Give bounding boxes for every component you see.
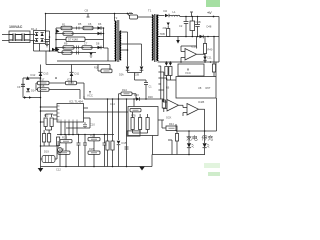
LED1 — [187, 143, 191, 147]
svg-text:D13: D13 — [44, 72, 49, 76]
wire T1 sec taps ticks — [158, 66, 166, 90]
svg-text:R21: R21 — [59, 147, 64, 151]
T2 core — [117, 20, 119, 62]
svg-text:R5: R5 — [78, 22, 82, 26]
diode D6 — [98, 32, 102, 35]
wire indicator left leg — [168, 140, 172, 155]
wire snubber drop — [128, 14, 130, 17]
snubber box — [130, 15, 138, 19]
capacitor C16 — [83, 135, 87, 167]
wire bridge negative drop — [39, 44, 41, 52]
ground mid rail — [177, 37, 179, 41]
op-amp IC2B-1 — [167, 100, 179, 112]
wire VCC rail stub up — [83, 96, 85, 99]
svg-text:R2A: R2A — [122, 88, 127, 92]
svg-text:D2A: D2A — [119, 74, 124, 77]
IC1 bottom pins — [61, 122, 77, 135]
svg-text:R16: R16 — [94, 67, 99, 70]
junction dots — [45, 13, 47, 15]
wire grid v3 — [65, 154, 67, 166]
wire rectifier join — [128, 70, 142, 72]
wire cap node drop — [45, 51, 47, 65]
wire IC2B-1 inputs — [163, 99, 167, 109]
LED2 bar — [203, 147, 207, 149]
svg-text:D12: D12 — [31, 73, 36, 77]
diode D3 on mid rail — [200, 35, 204, 39]
resistor R20 vertical — [57, 137, 60, 146]
capacitor C7B — [77, 51, 79, 55]
svg-text:D2B: D2B — [135, 74, 140, 77]
resistor R4B vertical — [169, 62, 171, 64]
wire sec bus v2 — [163, 72, 165, 102]
wire network out — [158, 119, 164, 121]
diode D14 bar — [26, 91, 30, 93]
svg-text:D16: D16 — [134, 93, 139, 97]
resistor R1A — [101, 69, 112, 73]
IC1 left inner ticks — [57, 106, 60, 120]
svg-text:R9: R9 — [64, 42, 68, 46]
diode D4 — [41, 39, 44, 42]
T2 secondary winding — [120, 31, 121, 60]
transistor Q1 — [56, 29, 60, 33]
wire Q3 stub — [58, 141, 60, 167]
wire R2A link — [119, 94, 137, 99]
wire primary bottom rail — [57, 60, 114, 62]
wire R37 link — [163, 108, 165, 112]
wire bus net low — [41, 121, 45, 123]
wire AC line — [2, 34, 9, 36]
resistor R35 vertical — [175, 134, 178, 142]
svg-text:VCC: VCC — [185, 71, 191, 75]
svg-text:C4B: C4B — [196, 20, 201, 24]
resistor R21 — [58, 151, 70, 154]
svg-text:R40: R40 — [208, 48, 213, 52]
bridge rectifier D1-4 — [34, 31, 46, 44]
svg-text:R1: R1 — [62, 22, 66, 26]
wire +V right drop — [218, 17, 220, 63]
diode D18 — [29, 96, 32, 99]
diode D16 — [136, 97, 140, 100]
diode D4 vertical — [203, 54, 206, 63]
green watermark bottom-right — [208, 172, 220, 176]
resistor R32 vertical — [131, 118, 134, 130]
diode D15 — [117, 141, 121, 145]
diode D5 bar — [100, 26, 102, 29]
svg-text:D11: D11 — [75, 72, 80, 76]
wire cap row under IC — [66, 127, 90, 129]
resistor R2A — [121, 92, 132, 95]
wire IC2B-2 inputs — [183, 108, 187, 117]
wire rail to D5A — [50, 49, 53, 51]
wire bus pin stub 1 — [41, 106, 54, 108]
ground arrow left bus — [38, 168, 44, 172]
wire T1 sec mid tap — [158, 36, 160, 38]
diode D9 — [89, 53, 92, 56]
wire bottom rail row y134.5 — [57, 134, 114, 136]
diode D9 drop — [90, 56, 93, 57]
LED2 — [203, 143, 207, 147]
IC1 TL494 box — [57, 104, 84, 123]
wire sec riser x141 — [141, 44, 143, 66]
capacitor C7 — [77, 46, 79, 50]
resistor R10 — [82, 46, 92, 49]
capacitor C8 stub — [87, 14, 90, 18]
wire row A2 — [56, 33, 104, 35]
capacitor CX2 — [18, 34, 30, 42]
resistor R2L vertical — [167, 29, 170, 37]
diode D11 bar — [70, 71, 74, 73]
svg-text:C12: C12 — [56, 168, 61, 172]
relay box U8 — [176, 77, 216, 99]
capacitor C18 — [125, 147, 129, 149]
wire y97 link — [23, 97, 41, 99]
resistor R34 vertical — [146, 118, 149, 130]
svg-text:L1: L1 — [173, 10, 177, 14]
resistor R18 — [38, 88, 50, 91]
wire R2L stub — [167, 26, 169, 29]
diode bars bridge — [35, 33, 44, 39]
wire R1A left — [98, 65, 101, 72]
label D10 — [0, 0, 1, 1]
resistor R11 — [62, 51, 72, 54]
resistor R19 — [66, 81, 77, 84]
wire IC2A output — [197, 37, 206, 63]
wire bridge left drop — [33, 41, 35, 52]
transformer T1 — [152, 14, 159, 62]
green watermark top-right — [206, 0, 220, 7]
svg-text:IC2A: IC2A — [191, 44, 197, 48]
diode D2 bar — [168, 14, 170, 17]
wire left riser x56 — [55, 28, 57, 51]
capacitor C9 — [21, 84, 25, 86]
resistor R9 — [63, 46, 74, 49]
resistor R33 vertical — [139, 118, 142, 130]
resistor R4A vertical — [165, 62, 167, 64]
wire right edge bus — [216, 98, 218, 131]
diode D8 — [98, 46, 102, 49]
resonator box — [42, 156, 55, 163]
diode D2A — [126, 67, 130, 71]
wire negative rail — [34, 50, 59, 52]
wire LED drops — [189, 131, 205, 143]
svg-text:R30: R30 — [148, 95, 153, 99]
resistor R6T vertical — [212, 64, 215, 72]
svg-text:SCK: SCK — [166, 116, 172, 120]
svg-text:T1: T1 — [148, 9, 152, 13]
small comp box — [127, 131, 140, 136]
svg-text:C11: C11 — [207, 56, 212, 60]
capacitor C4 — [195, 17, 200, 37]
resistor R24 vertical — [43, 134, 46, 143]
diode D2B bar — [140, 69, 144, 71]
svg-text:VCC: VCC — [87, 94, 93, 98]
svg-text:R28: R28 — [89, 147, 94, 151]
ground arrow mid — [176, 40, 180, 44]
wire riser x80 — [79, 90, 81, 100]
diode D2 — [41, 33, 44, 36]
diode D17 — [24, 96, 27, 99]
resistor R31 vertical — [111, 141, 114, 150]
diode D5 — [98, 26, 102, 29]
wire top HV rail — [46, 13, 134, 15]
ground bridge filter — [45, 45, 49, 48]
op-amp IC2A — [185, 49, 197, 61]
wire bottom rail y166.5 — [41, 166, 153, 168]
wire riser x58 — [57, 51, 59, 53]
capacitor C2 — [184, 22, 189, 37]
svg-text:D2: D2 — [164, 9, 168, 13]
diode D3 bar — [202, 35, 204, 39]
wire riser x71 — [71, 65, 73, 73]
wire rail drop left — [175, 124, 177, 131]
wire x214 drop — [213, 37, 215, 63]
svg-text:D15: D15 — [122, 141, 127, 145]
resistor R27 vertical — [48, 134, 51, 143]
resistor R22 vertical — [44, 118, 47, 127]
fuse F2 — [190, 12, 193, 17]
wire riser x36 — [35, 83, 37, 90]
wire channel left drop — [22, 78, 24, 98]
diode D11 — [70, 73, 74, 76]
LED1 arrows — [192, 144, 194, 147]
wire IC2A in2 drop — [180, 58, 182, 63]
diode D13 — [39, 73, 43, 76]
transistor Q2 — [56, 48, 60, 52]
wire LED bottoms — [189, 148, 205, 155]
wire SCK link — [162, 120, 166, 128]
wire bus pin stub 2 — [41, 110, 54, 112]
svg-text:C2: C2 — [179, 24, 183, 28]
diode D1 — [35, 33, 38, 36]
small box SCK — [166, 126, 177, 130]
resistor R29 vertical — [106, 141, 109, 150]
resistor R28 — [88, 151, 100, 154]
diode D3 — [35, 39, 38, 42]
wire sec bus v3 — [166, 78, 168, 108]
wire resonator stub — [41, 146, 58, 159]
capacitor Ct — [144, 80, 148, 99]
wire box right top — [215, 62, 217, 77]
resistor R2 — [63, 32, 73, 35]
resistor R7B — [130, 109, 141, 112]
diode D15 bar — [117, 144, 121, 146]
wire T2 sec tap3 — [121, 43, 141, 45]
wire T2 sec tap2 — [121, 49, 127, 51]
wire step drop — [152, 136, 154, 155]
capacitor CX1 — [9, 34, 18, 42]
ground symbol left bus — [40, 167, 42, 169]
svg-text:D48: D48 — [207, 25, 212, 29]
svg-text:C10: C10 — [90, 123, 95, 127]
wire mid rail y36.5 — [158, 36, 219, 38]
svg-text:R25: R25 — [62, 136, 67, 140]
resistor R23 vertical — [50, 118, 53, 127]
IC1 inner pin ticks — [61, 120, 77, 123]
diode D2 — [165, 14, 169, 17]
wire bridge positive riser — [45, 14, 47, 34]
wire cap drop C2 — [185, 17, 187, 22]
wire R35 legs — [176, 131, 178, 155]
wire R31 drop — [112, 150, 114, 167]
capacitor C3 — [190, 21, 195, 31]
IC1 left pins — [53, 107, 57, 119]
wire node riser x49 — [46, 31, 50, 51]
svg-text:R44: R44 — [169, 122, 174, 126]
wire IC2B-2 output — [199, 109, 205, 131]
svg-text:U8: U8 — [198, 86, 202, 90]
wire IC2A inputs — [181, 46, 197, 58]
wire grid v1 — [65, 135, 67, 152]
wire net risers x112-126 — [108, 99, 127, 167]
wire network feed — [133, 99, 135, 107]
diode D4 — [203, 57, 206, 61]
wire row y83 — [36, 82, 84, 84]
transistor Q3 — [58, 148, 63, 153]
diode D6 bar — [100, 32, 102, 35]
T1 primary winding — [152, 15, 153, 60]
diode D2A bar — [126, 69, 130, 71]
network box — [128, 107, 158, 136]
wire +V rail — [180, 16, 219, 18]
transformer T2 — [115, 20, 122, 62]
capacitor C5A — [77, 27, 80, 30]
svg-text:IC3: IC3 — [67, 78, 72, 82]
wire C3 drop — [191, 17, 193, 37]
resistor R3 vertical — [204, 37, 206, 44]
wire row y146 — [41, 145, 58, 147]
svg-text:IC1 TL494: IC1 TL494 — [69, 99, 83, 103]
wire snubber to T1 — [138, 16, 152, 18]
IC1 right pins — [84, 108, 129, 128]
capacitor C5 — [45, 40, 50, 45]
capacitor C15 — [77, 135, 81, 167]
svg-text:D14: D14 — [31, 89, 36, 93]
svg-text:R6T: R6T — [206, 86, 211, 90]
wire res tops — [44, 130, 49, 146]
wire row A — [56, 27, 104, 29]
T1 core — [154, 14, 156, 62]
resistor R17 — [38, 81, 50, 84]
wire channel row y78 — [23, 77, 41, 79]
label smudges in resistor boxes — [40, 28, 175, 153]
svg-text:20k: 20k — [163, 26, 168, 30]
wire left bus x40.5 — [40, 65, 42, 167]
wire IC2B-1 output — [179, 105, 184, 107]
diode D2B — [140, 67, 144, 71]
LED1 bar — [187, 147, 191, 149]
svg-text:TDB: TDB — [160, 32, 165, 36]
wire riser x110 — [109, 65, 111, 71]
svg-text:100VAC: 100VAC — [9, 25, 23, 29]
wire T1 primary feed — [138, 16, 142, 18]
wire T1 sec top tap — [158, 15, 164, 17]
wire indicator rail y131 — [176, 130, 217, 132]
wire D15 drop — [118, 145, 120, 167]
green watermark bottom-right faint — [204, 163, 220, 168]
svg-text:C9: C9 — [17, 85, 21, 89]
T1 secondary winding — [157, 15, 158, 61]
svg-text:C6: C6 — [88, 22, 92, 26]
wire y62 rail — [158, 61, 219, 63]
capacitor C17 — [103, 135, 107, 167]
EMI filter box — [9, 31, 30, 43]
wire sec bus v1 — [160, 66, 162, 99]
wire filter to bridge bottom — [30, 40, 35, 42]
op-amp IC2B-2 — [187, 104, 199, 116]
T2 primary winding — [115, 21, 116, 61]
diode D12 — [26, 76, 30, 80]
wire step riser — [151, 155, 153, 167]
LED2 arrows — [207, 144, 209, 147]
wire AC neutral — [2, 40, 9, 42]
wire VCC rail y99 — [84, 98, 164, 100]
wire row B2 — [58, 52, 96, 54]
wire row B to xfmr — [104, 48, 109, 61]
wire row A3 — [56, 39, 104, 41]
wire riser x84 — [83, 83, 85, 99]
resistor R5 — [83, 26, 93, 29]
diode D13 bar — [39, 71, 43, 73]
svg-text:C8: C8 — [85, 9, 89, 13]
diode D5A on rail — [52, 48, 55, 51]
diode D5A bar — [54, 48, 56, 51]
diode D8 bar — [100, 46, 102, 49]
svg-text:D19: D19 — [44, 150, 49, 154]
snubber box D7 — [66, 37, 85, 42]
wire grid v2 — [93, 135, 95, 167]
inductor L1 — [172, 15, 180, 16]
svg-text:R18: R18 — [40, 84, 45, 88]
svg-text:C7: C7 — [84, 42, 88, 46]
wire T2 primary top — [114, 14, 116, 22]
resonator hatch — [46, 156, 52, 163]
wire lower rail y64.5 — [46, 64, 110, 66]
svg-text:D8: D8 — [96, 42, 100, 46]
wire VCC tick — [187, 69, 189, 71]
resistor R37 vertical — [162, 100, 165, 108]
svg-text:D1-4: D1-4 — [31, 27, 38, 31]
capacitor C13 — [83, 122, 87, 128]
wire R4 drops — [166, 76, 176, 81]
wire row B — [56, 47, 104, 49]
diode D14 — [26, 88, 30, 91]
wire right riser x103 — [103, 28, 105, 48]
diode D4A blob — [165, 63, 168, 66]
wire step rail — [152, 154, 205, 156]
diode D16 bar — [139, 97, 141, 100]
svg-text:R7B: R7B — [131, 114, 136, 117]
svg-text:LB: LB — [166, 86, 169, 90]
svg-text:D7 4148: D7 4148 — [68, 38, 78, 42]
diode D4B blob — [169, 63, 172, 66]
wire rect mid drop — [135, 73, 147, 81]
svg-text:IC2B: IC2B — [198, 100, 204, 104]
ground arrow bottom mid — [139, 167, 145, 171]
wire network links — [133, 112, 148, 133]
wire filter to bridge top — [30, 34, 35, 36]
svg-text:+V: +V — [207, 11, 212, 15]
feedback box — [178, 64, 204, 76]
wire D11 drop — [71, 76, 73, 83]
wire net link — [46, 114, 53, 130]
wire R29 drop — [107, 150, 109, 167]
wire T2 sec tap1 — [121, 31, 127, 33]
resistor R26 — [88, 138, 100, 141]
wire D2 to L1 — [169, 15, 172, 17]
wire sec riser x127 — [127, 32, 129, 66]
wire VCC left tick — [89, 92, 91, 94]
resistor R1 — [61, 26, 72, 29]
